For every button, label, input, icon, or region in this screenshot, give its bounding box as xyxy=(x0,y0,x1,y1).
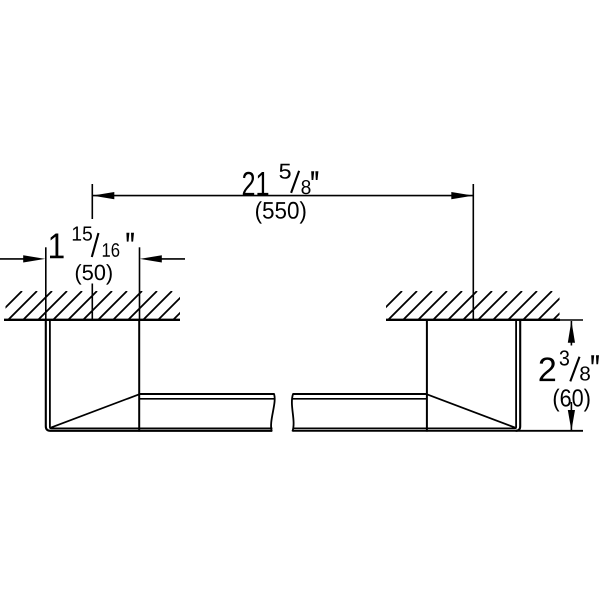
dimension 60: label 2 3/8" xyxy=(540,350,600,381)
dimension 50: left arrow tail xyxy=(0,258,24,260)
left post diagonal edge xyxy=(51,394,139,427)
extension line top of 60 dim xyxy=(558,319,583,321)
right post outer right edge with rounded corner xyxy=(516,319,521,431)
wall hatch left xyxy=(0,291,202,320)
dimension 60: dim line lower segment xyxy=(570,402,572,430)
bar top inner line (left segment) xyxy=(139,398,274,400)
dimension 550: left post center line xyxy=(91,284,93,320)
bar bottom outer line continuing as 60-dim bottom extension xyxy=(292,430,583,432)
dimension 550: label (550) xyxy=(256,201,306,223)
dimension 550: right extension line xyxy=(472,184,474,320)
wall surface line left xyxy=(4,319,180,321)
left post inner contour xyxy=(50,319,273,428)
right post diagonal edge xyxy=(427,394,515,427)
dimension 50: right extension line xyxy=(139,247,141,319)
wall hatch right xyxy=(373,291,582,320)
right post left edge xyxy=(426,319,428,432)
break wave right xyxy=(292,394,294,432)
dimension 60: label (60) xyxy=(554,389,590,412)
bar bottom inner line (right segment to right post inner corner) xyxy=(293,319,516,428)
dimension 50: label 1 15/16" xyxy=(50,227,134,259)
dimension 50: label (50) xyxy=(76,264,112,285)
break wave left xyxy=(271,393,275,431)
dimension 550: left extension tick xyxy=(91,184,93,219)
bar top outer line (left segment) xyxy=(139,393,274,395)
dimension 60: up arrowhead xyxy=(568,321,575,343)
dimension 50: right arrow tail xyxy=(161,258,185,260)
dimension 50: left arrowhead pointing right xyxy=(23,255,45,262)
dimension 550: dim line xyxy=(92,195,473,197)
bar top outer line (right segment) xyxy=(293,393,427,395)
dimension 50: left extension line xyxy=(45,247,47,319)
dimension 50: right arrowhead pointing left xyxy=(140,255,162,262)
left post right edge xyxy=(138,319,140,432)
dimension 550: label 21 5/8" xyxy=(243,164,319,196)
dimension 550: left arrowhead xyxy=(92,192,114,199)
dimension 60: dim line upper segment xyxy=(570,321,572,346)
bar top inner line (right segment) xyxy=(292,398,427,400)
wall surface line right xyxy=(386,319,560,321)
dimension 60: down arrowhead xyxy=(568,410,575,431)
dimension 550: right arrowhead xyxy=(451,192,473,199)
left post outer contour xyxy=(46,319,272,431)
